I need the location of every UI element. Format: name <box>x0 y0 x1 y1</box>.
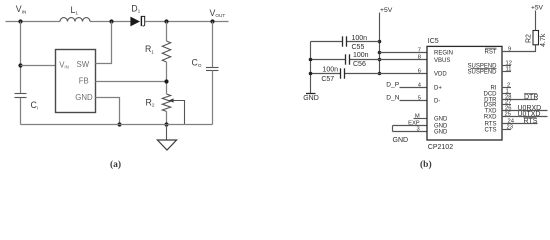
wire top rail left segment <box>6 21 61 23</box>
wire SUSPEND inv stub pin 11 <box>502 71 511 73</box>
svg-text:8: 8 <box>418 55 421 61</box>
diode D1 (Schottky) <box>130 16 144 26</box>
node VIN tap <box>18 63 22 67</box>
wire REGIN row pin 7 <box>380 52 428 54</box>
wire R2 bottom <box>166 111 168 124</box>
wire GND to bottom rail <box>96 98 120 125</box>
label net RTS with overline <box>524 118 538 125</box>
svg-text:9: 9 <box>508 47 511 53</box>
svg-text:100n: 100n <box>352 35 368 42</box>
wire FB to divider <box>96 81 167 83</box>
wire R1-R2 with FB node <box>166 62 168 94</box>
node SW junction <box>109 19 113 23</box>
wire DCD stub pin 1 <box>502 93 511 95</box>
node R2-rail junction <box>164 122 168 126</box>
capacitor C57 <box>341 68 345 78</box>
wire VIN stub to IC <box>21 65 56 67</box>
svg-text:D+: D+ <box>434 85 442 91</box>
node FB junction <box>164 79 168 83</box>
svg-text:GND: GND <box>303 95 319 102</box>
svg-text:DTR: DTR <box>524 94 538 101</box>
svg-text:5: 5 <box>418 95 421 101</box>
svg-text:+5V: +5V <box>531 4 544 11</box>
svg-text:U0TXD: U0TXD <box>518 111 541 118</box>
svg-text:(b): (b) <box>420 159 432 170</box>
op-amp U1 regulator IC box <box>56 50 96 113</box>
node REGIN junction <box>378 51 382 55</box>
svg-text:7: 7 <box>418 47 421 53</box>
svg-text:IC5: IC5 <box>428 38 439 45</box>
svg-text:GND: GND <box>434 117 448 123</box>
node C56 left junction <box>309 58 313 62</box>
pin EXP gnd stub <box>393 120 428 126</box>
svg-text:SW: SW <box>77 60 90 69</box>
svg-text:D-: D- <box>434 99 440 105</box>
node C57 left junction <box>309 72 313 76</box>
node D_N net stub <box>386 95 427 102</box>
node diode-R1 junction <box>164 19 168 23</box>
svg-text:C56: C56 <box>353 61 366 68</box>
IC5 CP2102 box <box>427 46 502 140</box>
svg-text:REGIN: REGIN <box>434 50 453 56</box>
svg-text:C57: C57 <box>321 76 334 83</box>
wire TXD net pin 26 <box>502 110 548 112</box>
wire SUSPEND stub pin 12 <box>502 65 511 67</box>
wire R1 top <box>166 22 168 42</box>
capacitor Co <box>206 68 219 71</box>
svg-text:RTS: RTS <box>524 118 538 125</box>
svg-text:R2: R2 <box>526 34 533 43</box>
svg-text:(a): (a) <box>110 159 121 170</box>
node C55 junction <box>378 40 382 44</box>
node GND-rail junction <box>117 122 121 126</box>
wire C55 row <box>311 41 380 43</box>
svg-text:Ci: Ci <box>31 100 38 110</box>
wiper arrow of R2 <box>169 98 185 124</box>
svg-text:100n: 100n <box>322 67 338 74</box>
node VIN junction <box>18 19 22 23</box>
resistor R2 4.7k <box>533 11 539 45</box>
capacitor C56 <box>346 54 350 64</box>
svg-text:CP2102: CP2102 <box>428 144 453 151</box>
node VDD junction <box>378 72 382 76</box>
ground <box>157 125 176 151</box>
wire C56 row <box>311 59 428 61</box>
svg-text:+5V: +5V <box>380 7 393 14</box>
wire between L1 and D1 <box>90 21 130 23</box>
svg-text:CTS: CTS <box>485 128 497 134</box>
svg-text:RST: RST <box>485 50 497 56</box>
pin name SUSPEND inverted <box>467 68 497 75</box>
wire Co bottom branch <box>212 71 214 125</box>
wire DTR net pin 28 <box>502 99 538 101</box>
svg-text:25: 25 <box>505 111 511 117</box>
svg-text:11: 11 <box>506 67 512 73</box>
wire left branch vertical <box>20 22 22 94</box>
svg-text:23: 23 <box>507 124 513 130</box>
svg-text:4.7k: 4.7k <box>540 33 547 47</box>
node VOUT junction <box>210 19 214 23</box>
ground GND left <box>303 94 319 103</box>
svg-text:100n: 100n <box>353 52 369 59</box>
svg-text:VBUS: VBUS <box>434 58 450 64</box>
wire RTS net pin 24 <box>502 123 538 125</box>
svg-text:FB: FB <box>79 77 89 86</box>
svg-text:D_P: D_P <box>386 81 399 88</box>
wire DSR stub pin 27 <box>502 104 511 106</box>
node D_P net stub <box>386 81 427 88</box>
svg-text:GND: GND <box>393 137 409 144</box>
resistor R2 (trimmer) <box>162 94 170 111</box>
svg-text:VDD: VDD <box>434 71 447 77</box>
wire RXD net pin 25 <box>502 116 548 118</box>
svg-text:GND: GND <box>434 130 448 136</box>
label net DTR with overline <box>524 94 538 101</box>
power +5V left <box>380 7 393 74</box>
svg-text:6: 6 <box>418 68 421 74</box>
svg-text:GND: GND <box>75 93 93 102</box>
inductor L1 <box>60 18 90 22</box>
wire CTS stub pin 23 <box>502 129 511 131</box>
wire gnd pins vertical <box>392 126 394 132</box>
wire RST row pin 9 <box>502 45 536 52</box>
wire bottom rail <box>21 124 213 126</box>
wire RI stub pin 2 <box>502 87 511 89</box>
svg-text:C55: C55 <box>352 44 365 51</box>
wire Ci to bottom rail <box>20 98 22 125</box>
resistor R1 <box>162 41 170 62</box>
node VBUS junction <box>378 58 382 62</box>
wire top rail right segment <box>145 21 229 23</box>
wire C57 row <box>311 73 428 75</box>
pin M gnd stub <box>414 114 428 120</box>
svg-text:SUSPEND: SUSPEND <box>467 70 497 76</box>
svg-text:RXD: RXD <box>484 115 497 121</box>
svg-text:D_N: D_N <box>386 95 399 102</box>
pin name RST with overline <box>485 48 497 55</box>
pin 3 gnd stub <box>393 127 428 133</box>
wire Co top branch <box>212 22 214 68</box>
capacitor Ci <box>15 94 27 98</box>
wire left cap bus vertical <box>310 42 312 94</box>
capacitor C55 <box>343 36 347 46</box>
wire SW to top rail <box>96 22 112 64</box>
